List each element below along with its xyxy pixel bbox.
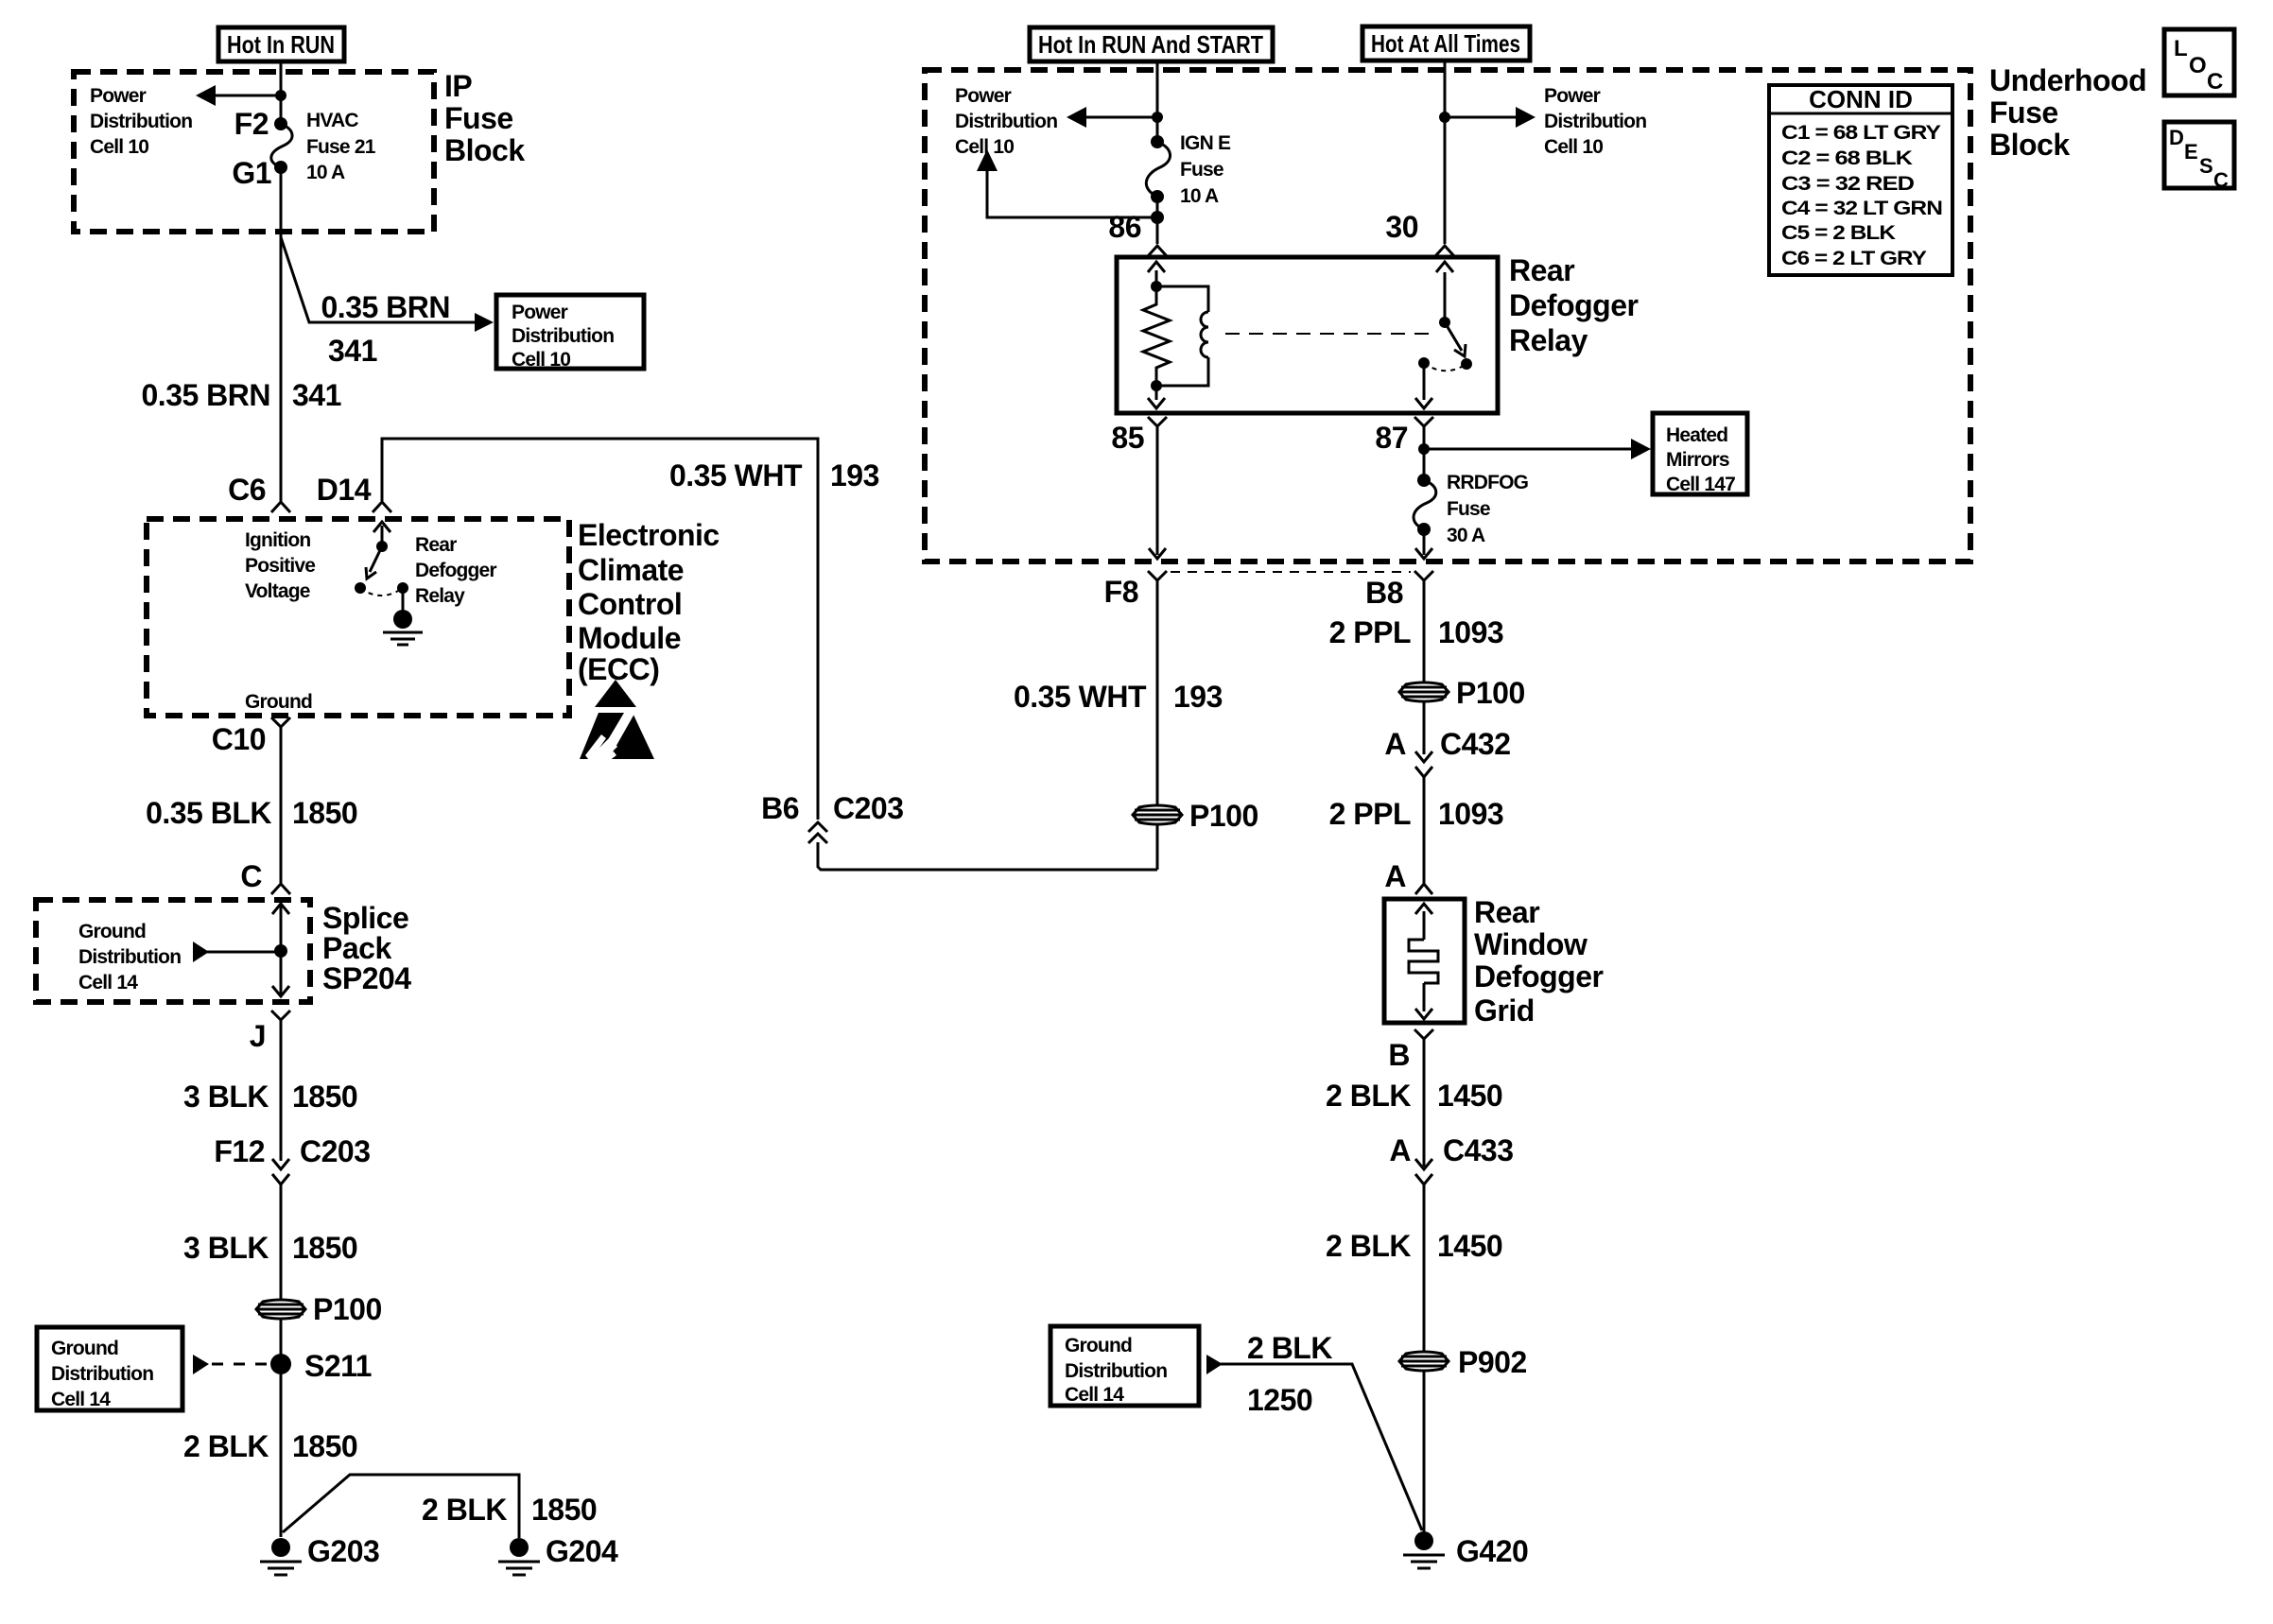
svg-text:G1: G1 <box>232 156 271 190</box>
svg-text:Window: Window <box>1474 927 1588 961</box>
svg-text:Fuse: Fuse <box>444 101 513 135</box>
svg-text:2 BLK: 2 BLK <box>1326 1229 1411 1263</box>
relay switch arm <box>1445 322 1466 356</box>
svg-text:Cell 10: Cell 10 <box>512 349 570 371</box>
svg-text:G420: G420 <box>1456 1534 1528 1568</box>
pin C10 <box>212 717 290 883</box>
fuse HVAC Fuse 21 10 A <box>271 110 376 183</box>
wire 2 BLK 1250 to G420 <box>1206 1355 1422 1530</box>
node Ground Distribution Cell 14 box (right) <box>1050 1326 1199 1406</box>
wire label 2 BLK 1450 <box>1326 1079 1502 1113</box>
node LOC box <box>2164 29 2234 95</box>
svg-text:2 PPL: 2 PPL <box>1329 615 1411 649</box>
svg-text:Fuse: Fuse <box>1447 498 1490 520</box>
svg-text:Voltage: Voltage <box>245 580 310 602</box>
node IP Fuse Block label <box>444 69 525 167</box>
svg-text:2 PPL: 2 PPL <box>1329 797 1411 831</box>
IP Fuse Block dashed box <box>74 72 434 232</box>
junction to power distribution right <box>1439 112 1450 123</box>
connector F8 <box>1104 571 1167 609</box>
junction heated mirrors <box>1418 443 1430 455</box>
svg-text:Heated: Heated <box>1666 424 1727 446</box>
wire dashed to S211 <box>193 1355 274 1374</box>
wire RRDFOG down to B8 <box>1415 529 1432 559</box>
splice S211 <box>270 1349 372 1383</box>
connector B8 <box>1365 571 1433 610</box>
dashed actuation line <box>1225 333 1437 335</box>
svg-text:C1 = 68 LT GRY: C1 = 68 LT GRY <box>1781 122 1941 144</box>
svg-text:C432: C432 <box>1440 727 1511 761</box>
wire label 0.35 WHT 193 <box>669 458 879 492</box>
node Rear Defogger Relay label <box>1509 253 1639 357</box>
svg-text:C6 = 2 LT GRY: C6 = 2 LT GRY <box>1781 248 1927 269</box>
node Heated Mirrors Cell 147 box <box>1653 413 1747 495</box>
svg-text:Cell 147: Cell 147 <box>1666 474 1735 495</box>
svg-text:B8: B8 <box>1365 576 1403 610</box>
svg-text:C433: C433 <box>1443 1133 1514 1167</box>
svg-text:D14: D14 <box>317 473 372 507</box>
wire label 2 PPL 1093 <box>1329 615 1504 649</box>
wire Hot In RUN And START down <box>1156 61 1159 142</box>
Underhood Fuse Block dashed box <box>925 70 1970 561</box>
wire label 2 BLK 1850 (G204 branch) <box>422 1493 597 1527</box>
svg-text:C2 = 68 BLK: C2 = 68 BLK <box>1781 147 1913 169</box>
pin 30 <box>1385 210 1454 256</box>
svg-text:Underhood: Underhood <box>1989 63 2146 97</box>
svg-text:193: 193 <box>830 458 879 492</box>
svg-text:B: B <box>1388 1038 1410 1072</box>
connector A C432 <box>1384 727 1510 777</box>
node Hot In RUN <box>218 27 344 61</box>
svg-text:C: C <box>2213 168 2229 192</box>
ground G203 <box>260 1534 379 1575</box>
svg-text:2 BLK: 2 BLK <box>1326 1079 1411 1113</box>
node Power Distribution Cell 10 (left underhood) <box>955 85 1057 158</box>
svg-text:E: E <box>2184 140 2198 164</box>
svg-text:0.35 WHT: 0.35 WHT <box>1014 680 1147 714</box>
node Underhood Fuse Block label <box>1989 63 2146 162</box>
wire arrow to Power Distribution <box>196 85 281 106</box>
wire through splice pack <box>272 904 289 996</box>
svg-text:IGN E: IGN E <box>1180 132 1231 154</box>
svg-text:Distribution: Distribution <box>1065 1360 1167 1382</box>
wire arrow up-left to Power Distribution <box>977 149 1157 217</box>
component box Rear Window Defogger Grid <box>1384 899 1465 1023</box>
resistor (relay) <box>1143 286 1170 386</box>
svg-text:Hot At All Times: Hot At All Times <box>1371 29 1520 58</box>
svg-text:L: L <box>2174 36 2188 61</box>
pin 85 <box>1111 417 1167 455</box>
svg-text:P100: P100 <box>1456 676 1525 710</box>
svg-text:Grid: Grid <box>1474 993 1535 1028</box>
svg-text:RRDFOG: RRDFOG <box>1447 472 1529 493</box>
wire 0.35 WHT 193 from D14 to C203 <box>382 439 1157 870</box>
svg-text:Power: Power <box>512 302 568 323</box>
wire branch to G204 <box>283 1475 519 1538</box>
svg-text:87: 87 <box>1375 421 1408 455</box>
wire B8 down <box>1423 580 1426 754</box>
wire label 3 BLK 1850 <box>183 1231 357 1265</box>
fuse IGN E Fuse 10 A <box>1146 132 1231 207</box>
svg-text:1450: 1450 <box>1437 1079 1502 1113</box>
wire to grid (2 PPL 1093) <box>1423 777 1426 883</box>
svg-text:Block: Block <box>1989 128 2070 162</box>
svg-text:C10: C10 <box>212 722 266 756</box>
svg-text:CONN ID: CONN ID <box>1809 85 1913 113</box>
svg-text:2 BLK: 2 BLK <box>422 1493 507 1527</box>
svg-text:2 BLK: 2 BLK <box>1247 1331 1332 1365</box>
svg-text:1850: 1850 <box>531 1493 597 1527</box>
svg-text:Module: Module <box>578 621 681 655</box>
wire J down (3 BLK 1850) <box>280 1020 283 1161</box>
grommet P902 <box>1399 1345 1527 1379</box>
wire below C203 <box>280 1184 283 1537</box>
svg-text:Ground: Ground <box>245 691 312 713</box>
connector A C433 <box>1389 1133 1513 1184</box>
coil (relay) <box>1156 286 1208 386</box>
pin C6 <box>228 473 290 512</box>
node Power Distribution Cell 10 (right underhood) <box>1544 85 1646 158</box>
svg-text:C5 = 2 BLK: C5 = 2 BLK <box>1781 222 1896 244</box>
svg-text:Control: Control <box>578 587 682 621</box>
svg-text:0.35 BRN: 0.35 BRN <box>321 290 451 324</box>
relay box Rear Defogger Relay <box>1117 257 1498 413</box>
grid element <box>1409 904 1438 1019</box>
svg-text:0.35 BRN: 0.35 BRN <box>142 378 271 412</box>
svg-text:Defogger: Defogger <box>415 560 496 581</box>
svg-text:Ground: Ground <box>78 921 146 942</box>
relay switch contacts <box>1418 357 1472 371</box>
svg-text:Power: Power <box>955 85 1012 107</box>
svg-text:Defogger: Defogger <box>1474 959 1604 993</box>
svg-text:F12: F12 <box>214 1134 265 1168</box>
svg-text:30: 30 <box>1385 210 1418 244</box>
grommet P100 (right) <box>1399 676 1525 710</box>
svg-text:A: A <box>1389 1133 1411 1167</box>
svg-text:Distribution: Distribution <box>955 111 1057 132</box>
svg-text:Cell 14: Cell 14 <box>1065 1384 1124 1406</box>
svg-text:F8: F8 <box>1104 575 1138 609</box>
svg-text:Fuse: Fuse <box>1180 159 1223 181</box>
pin D14 <box>317 473 391 512</box>
svg-text:C: C <box>2207 69 2223 95</box>
wire label 2 PPL 1093 <box>1329 797 1504 831</box>
node Power Distribution Cell 10 (IP) <box>90 85 192 158</box>
node Ground Distribution Cell 14 box (left) <box>37 1327 182 1410</box>
wire arrow to Heated Mirrors <box>1424 439 1651 459</box>
wire G1 down to C6 (0.35 BRN 341) <box>280 167 283 501</box>
node CONN ID table <box>1769 85 1952 275</box>
junction on HVAC feed <box>275 90 286 101</box>
wire B down <box>1423 1039 1426 1166</box>
wire 87 down to RRDFOG <box>1423 426 1426 480</box>
svg-text:Hot In RUN: Hot In RUN <box>227 30 335 59</box>
node Rear Defogger Relay label (ECC) <box>415 534 496 607</box>
junction second distribution tap <box>1151 211 1164 224</box>
connector B6 C203 <box>761 791 903 843</box>
wire down to G420 <box>1423 1184 1426 1538</box>
svg-text:Relay: Relay <box>1509 323 1588 357</box>
node Electronic Climate Control Module (ECC) label <box>578 518 720 686</box>
svg-text:2 BLK: 2 BLK <box>183 1429 269 1463</box>
pin C (splice pack) <box>240 859 290 894</box>
svg-text:(ECC): (ECC) <box>578 652 659 686</box>
svg-text:Fuse 21: Fuse 21 <box>306 136 376 158</box>
svg-text:3 BLK: 3 BLK <box>183 1231 269 1265</box>
wire label 2 BLK 1450 <box>1326 1229 1502 1263</box>
svg-text:193: 193 <box>1173 680 1223 714</box>
node DESC box <box>2164 122 2234 192</box>
svg-text:1093: 1093 <box>1438 797 1503 831</box>
svg-text:P100: P100 <box>1189 799 1258 833</box>
svg-text:G204: G204 <box>546 1534 618 1568</box>
svg-text:Distribution: Distribution <box>51 1363 153 1385</box>
svg-text:C203: C203 <box>300 1134 371 1168</box>
wire branch 0.35 BRN 341 to Power Distribution <box>281 237 494 368</box>
svg-text:Rear: Rear <box>415 534 457 556</box>
node Hot In RUN And START <box>1030 27 1273 61</box>
svg-text:C3 = 32 RED: C3 = 32 RED <box>1781 173 1915 195</box>
pin J <box>250 1011 290 1053</box>
svg-text:G203: G203 <box>307 1534 379 1568</box>
svg-text:C6: C6 <box>228 473 266 507</box>
fuse RRDFOG Fuse 30 A <box>1414 472 1529 546</box>
svg-text:J: J <box>250 1019 266 1053</box>
svg-text:Cell 14: Cell 14 <box>78 972 138 993</box>
wire F8 down (0.35 WHT 193) <box>1156 580 1159 870</box>
wire label 0.35 BRN 341 <box>142 378 341 412</box>
svg-text:Mirrors: Mirrors <box>1666 449 1729 471</box>
relay coil pin 85 arrow <box>1148 380 1165 408</box>
relay pin 87 arrow <box>1415 363 1432 408</box>
svg-text:IP: IP <box>444 69 472 103</box>
Electronic Climate Control Module dashed box <box>147 519 569 716</box>
svg-text:1093: 1093 <box>1438 615 1503 649</box>
svg-text:1450: 1450 <box>1437 1229 1502 1263</box>
wire label 0.35 BLK 1850 <box>146 796 357 830</box>
svg-text:Distribution: Distribution <box>90 111 192 132</box>
svg-text:85: 85 <box>1111 421 1144 455</box>
svg-text:HVAC: HVAC <box>306 110 358 131</box>
node Hot At All Times wire down <box>1444 60 1447 244</box>
svg-text:1850: 1850 <box>292 796 357 830</box>
wire arrow from Ground Distribution into splice <box>193 942 281 962</box>
svg-text:Block: Block <box>444 133 525 167</box>
pin F2 <box>234 107 287 141</box>
grommet P100 (center) <box>1133 799 1258 833</box>
svg-text:Fuse: Fuse <box>1989 95 2058 130</box>
svg-text:Positive: Positive <box>245 555 315 577</box>
svg-text:Electronic: Electronic <box>578 518 720 552</box>
svg-text:Ground: Ground <box>1065 1335 1132 1356</box>
svg-text:86: 86 <box>1108 210 1141 244</box>
svg-text:1250: 1250 <box>1247 1383 1312 1417</box>
svg-text:C203: C203 <box>833 791 904 825</box>
svg-text:341: 341 <box>328 334 377 368</box>
wire arrow left to Power Distribution <box>1067 107 1157 128</box>
svg-text:SP204: SP204 <box>322 961 411 995</box>
junction to power distribution <box>1152 112 1163 123</box>
svg-text:F2: F2 <box>234 107 269 141</box>
relay coil pin arrow (ECC) <box>373 522 390 546</box>
svg-text:P100: P100 <box>313 1292 382 1326</box>
svg-text:341: 341 <box>292 378 341 412</box>
connector F12 C203 <box>214 1134 370 1184</box>
relay coil pin 86 arrow <box>1148 262 1165 292</box>
svg-text:Cell 14: Cell 14 <box>51 1389 111 1410</box>
svg-text:Power: Power <box>1544 85 1601 107</box>
svg-text:Power: Power <box>90 85 147 107</box>
relay switch pin 30 arrow <box>1436 262 1453 328</box>
svg-text:Ignition: Ignition <box>245 529 310 551</box>
relay switch (ECC rear defogger relay) <box>355 541 408 596</box>
wire Hot In RUN to fuse F2 <box>280 61 283 124</box>
svg-text:30 A: 30 A <box>1447 525 1485 546</box>
wire label 2 BLK 1250 <box>1247 1331 1332 1417</box>
pin G1 <box>232 156 287 190</box>
node Hot At All Times <box>1362 26 1530 60</box>
svg-text:C: C <box>240 859 262 893</box>
svg-text:C4 = 32 LT GRN: C4 = 32 LT GRN <box>1781 198 1942 219</box>
svg-text:A: A <box>1384 859 1406 893</box>
svg-text:Rear: Rear <box>1509 253 1574 287</box>
svg-text:Distribution: Distribution <box>78 946 181 968</box>
svg-text:10 A: 10 A <box>1180 185 1219 207</box>
svg-text:Distribution: Distribution <box>1544 111 1646 132</box>
wire 85 down to F8 <box>1149 426 1166 559</box>
ground G204 <box>498 1534 618 1575</box>
svg-text:Ground: Ground <box>51 1338 118 1359</box>
node Ground Distribution Cell 14 (splice) <box>78 921 181 993</box>
wire label 2 BLK 1850 <box>183 1429 357 1463</box>
wire below IGN E fuse <box>1156 197 1159 244</box>
ground inside ECC relay <box>383 588 423 645</box>
node Splice Pack SP204 label <box>322 901 411 995</box>
svg-text:Distribution: Distribution <box>512 325 614 347</box>
svg-text:O: O <box>2189 53 2207 78</box>
svg-text:Cell 10: Cell 10 <box>90 136 148 158</box>
svg-text:1850: 1850 <box>292 1080 357 1114</box>
node Ignition Positive Voltage <box>245 529 315 602</box>
svg-text:D: D <box>2169 126 2184 149</box>
svg-text:Defogger: Defogger <box>1509 288 1639 322</box>
svg-text:Climate: Climate <box>578 553 684 587</box>
svg-text:P902: P902 <box>1458 1345 1527 1379</box>
svg-text:1850: 1850 <box>292 1429 357 1463</box>
pin 86 <box>1108 210 1167 256</box>
svg-text:S: S <box>2199 154 2213 178</box>
node Power Distribution Cell 10 box <box>496 295 644 371</box>
pin A (grid) <box>1384 859 1432 894</box>
ESD sensitivity symbol <box>580 680 654 765</box>
grommet P100 (left) <box>256 1292 382 1326</box>
svg-text:Cell 10: Cell 10 <box>955 136 1014 158</box>
svg-text:10 A: 10 A <box>306 162 345 183</box>
wire arrow right to Power Distribution <box>1445 107 1536 128</box>
ground G420 <box>1403 1531 1528 1568</box>
svg-text:Rear: Rear <box>1474 895 1539 929</box>
svg-text:Cell 10: Cell 10 <box>1544 136 1603 158</box>
svg-text:Hot In RUN And START: Hot In RUN And START <box>1038 30 1263 59</box>
svg-text:Splice: Splice <box>322 901 408 935</box>
wire label 3 BLK 1850 <box>183 1080 357 1114</box>
pin 87 <box>1375 417 1433 455</box>
svg-text:3 BLK: 3 BLK <box>183 1080 269 1114</box>
svg-text:0.35 BLK: 0.35 BLK <box>146 796 271 830</box>
svg-text:0.35 WHT: 0.35 WHT <box>669 458 803 492</box>
svg-text:Relay: Relay <box>415 585 465 607</box>
svg-text:B6: B6 <box>761 791 799 825</box>
wire dashed connector line F8-B8 <box>1171 571 1411 573</box>
wire label 0.35 WHT 193 <box>1014 680 1223 714</box>
Splice Pack dashed box <box>36 900 310 1002</box>
svg-text:Pack: Pack <box>322 931 391 965</box>
svg-text:A: A <box>1384 727 1406 761</box>
svg-text:1850: 1850 <box>292 1231 357 1265</box>
pin B (grid) <box>1388 1029 1433 1072</box>
svg-text:S211: S211 <box>304 1349 372 1383</box>
node Rear Window Defogger Grid label <box>1474 895 1604 1028</box>
